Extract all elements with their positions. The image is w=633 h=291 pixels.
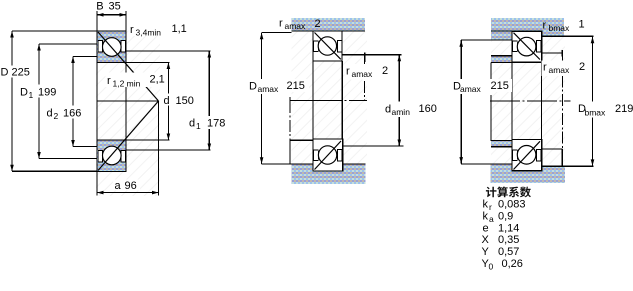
svg-text:amax: amax (460, 84, 482, 94)
view3 Damax dimension line (460, 40, 462, 163)
view2 shaft surface line right (da extension top) (342, 54, 401, 56)
view3 bottom bar (blue) (491, 164, 565, 183)
svg-text:d: d (47, 107, 53, 119)
dimension d line (167, 63, 169, 141)
view3 label r amax 2 (542, 61, 587, 77)
svg-text:d: d (189, 117, 195, 129)
view3 Da extension top / shoulder bottom line (461, 39, 512, 41)
view1 bottom section left raceway notch (98, 150, 103, 162)
view2 top section ball (318, 37, 336, 55)
svg-text:Y: Y (482, 246, 490, 258)
dimension D line (11, 31, 13, 171)
view3 label Dbmax 219 (576, 102, 633, 118)
view1 contact-angle diagonal through bottom ball to apex (98, 101, 159, 171)
svg-text:2: 2 (382, 65, 388, 77)
svg-text:D: D (1, 67, 9, 79)
view2 bottom section contact diagonal (315, 141, 342, 170)
dimension d2 extension top (73, 56, 97, 58)
svg-text:1,2 min: 1,2 min (113, 78, 141, 88)
view3 horizontal centerline (dash-dot) (490, 100, 571, 102)
svg-text:2: 2 (315, 18, 321, 30)
view2 shaft end vertical line (289, 97, 291, 101)
view3 shaft surface line right bottom (y149) (542, 148, 563, 150)
view2 housing shoulder bar top (blue) (292, 18, 366, 31)
svg-text:k: k (483, 199, 489, 211)
view2 shaft shoulder line over bottom bar / Da extension bottom (262, 163, 366, 165)
svg-text:amin: amin (392, 107, 411, 117)
view3 bottom spacer strip bottom line (491, 146, 512, 148)
view2 Damax dimension line (261, 33, 263, 164)
svg-text:160: 160 (419, 103, 437, 115)
view3 housing bore line under top bar (491, 30, 542, 32)
svg-text:D: D (249, 80, 257, 92)
view3 top section right notch (537, 41, 541, 53)
view3 bottom spacer strip (blue) (491, 141, 512, 146)
svg-text:166: 166 (63, 107, 81, 119)
view1 top section right raceway notch (121, 41, 125, 53)
dimension a line with arrows (97, 192, 159, 194)
dimension d2 extension bottom (73, 146, 97, 148)
view2 top section left notch (314, 41, 319, 52)
view3 top spacer strip bottom line (491, 61, 512, 63)
view2 bottom section left notch (314, 150, 319, 161)
view3 top section contact diagonal (514, 33, 540, 60)
view1 top section ball (103, 38, 122, 57)
view1 apex vertical extension line (a dimension) (158, 101, 160, 196)
svg-text:0,57: 0,57 (498, 246, 519, 258)
view2 top section contact diagonal (315, 33, 341, 60)
view3 bottom section contact diagonal (514, 141, 541, 169)
svg-text:1: 1 (579, 19, 585, 31)
view3 bottom bar right step cover (542, 164, 565, 166)
dimension d1 extension bottom (126, 149, 211, 151)
view3 top section left notch (513, 41, 518, 52)
svg-text:96: 96 (125, 180, 137, 192)
svg-text:D: D (20, 86, 28, 98)
view3 bottom section left notch (513, 150, 518, 161)
view3 Db extension top (542, 35, 594, 37)
dimension D1 line (38, 44, 40, 159)
view3 bottom bearing section box (512, 140, 542, 171)
svg-text:0,26: 0,26 (502, 258, 523, 270)
view2 shaft shoulder tick (364, 52, 366, 61)
label a 96 (113, 180, 140, 191)
svg-text:215: 215 (287, 80, 305, 92)
svg-text:B: B (96, 0, 103, 12)
dimension D1 extension top (39, 43, 97, 45)
label B 35 (95, 0, 124, 11)
view1 contact-angle diagonal through top ball to apex (98, 32, 159, 101)
svg-text:2: 2 (54, 111, 59, 121)
view3 housing shoulder block (blue) (491, 32, 512, 40)
svg-text:r: r (489, 202, 492, 212)
view2 hatched figure background (292, 32, 367, 164)
label r1,2min 2,1 (106, 73, 164, 88)
view3 Dbmax dimension line (592, 37, 594, 166)
svg-text:a: a (115, 180, 122, 192)
dimension D1 extension bottom (39, 158, 97, 160)
svg-text:3,4min: 3,4min (136, 27, 162, 37)
view3 label Damax 215 (452, 79, 485, 94)
view2 bottom section ball (318, 146, 336, 164)
svg-text:amax: amax (285, 21, 307, 31)
view1 bearing left face line (B extension left) (96, 11, 98, 196)
view2 damin dimension line (398, 55, 400, 146)
svg-text:amax: amax (352, 69, 374, 79)
view2 shaft bore line left (290, 139, 313, 141)
view3 hatched figure background (491, 32, 565, 167)
dimension d1 extension top (126, 50, 211, 52)
label D1 199 (19, 85, 56, 98)
view3 bore connecting line right (541, 62, 543, 139)
view2 label damin 160 (384, 102, 439, 118)
svg-text:bmax: bmax (549, 23, 571, 33)
label r3,4min 1,1 (129, 24, 187, 37)
view3 top bearing section box (512, 31, 542, 62)
view3 bottom section ball (517, 146, 536, 165)
view2 bore connecting line left (312, 61, 314, 139)
view2 top section right notch (338, 40, 342, 52)
dimension d2 line (72, 57, 74, 147)
svg-text:225: 225 (12, 67, 30, 79)
dimension d extension top (126, 62, 170, 64)
view3 bore connecting line left (511, 62, 513, 139)
label D 225 (0, 66, 31, 78)
svg-text:150: 150 (176, 95, 194, 107)
view2 da extension bottom (343, 145, 404, 147)
view3 top section ball (517, 37, 536, 56)
view3 shaft end vertical line (490, 63, 492, 79)
view1 hatched figure background (96, 30, 160, 196)
svg-text:1,14: 1,14 (498, 222, 519, 234)
view3 bottom section right notch (537, 150, 541, 162)
svg-text:amax: amax (258, 84, 280, 94)
svg-text:e: e (483, 222, 489, 234)
dimension D extension bottom (12, 170, 97, 172)
view2 bottom bearing section box (313, 139, 343, 171)
label d1 178 (188, 116, 227, 129)
view2 Da extension top (262, 31, 292, 33)
svg-text:k: k (483, 210, 489, 222)
svg-text:1: 1 (29, 90, 34, 100)
svg-text:d: d (385, 103, 391, 115)
dimension B line with arrows (97, 14, 126, 16)
dimension d1 line (208, 51, 210, 150)
svg-text:a: a (489, 214, 494, 224)
svg-text:2,1: 2,1 (150, 73, 165, 85)
view1 outer-ring top section (blue cross-section) (97, 31, 126, 63)
svg-text:215: 215 (491, 80, 509, 92)
svg-text:r: r (543, 20, 547, 32)
dimension d extension bottom (bore line) (126, 139, 170, 141)
label d2 166 (46, 106, 83, 119)
view3 bottom spacer strip top line (491, 140, 513, 142)
svg-text:r: r (543, 62, 547, 74)
svg-text:178: 178 (207, 117, 225, 129)
view1 bottom section ball (103, 146, 122, 165)
view1 bottom section right raceway notch (121, 150, 125, 162)
svg-text:0,083: 0,083 (498, 199, 526, 211)
view3 housing bar top (blue) (491, 18, 564, 31)
svg-text:35: 35 (109, 0, 121, 12)
view3 housing bar right step (blue, Db recess) (542, 31, 564, 36)
view2 shaft bar bottom (blue) (292, 165, 366, 184)
svg-text:1: 1 (196, 121, 201, 131)
view3 top spacer strip outline (491, 55, 512, 57)
view2 label Damax 215 (248, 79, 282, 94)
view3 shoulder vertical solid bottom (561, 149, 563, 166)
svg-text:0,9: 0,9 (498, 210, 513, 222)
view2 horizontal centerline (dash-dot) (290, 99, 367, 101)
svg-text:199: 199 (38, 86, 56, 98)
svg-text:X: X (482, 234, 490, 246)
view2 top bearing section box (313, 31, 342, 61)
view3 Da extension bottom / bottom bar top line (461, 163, 541, 165)
svg-text:amax: amax (549, 65, 571, 75)
view2 bore connecting line right (341, 61, 343, 139)
svg-text:0,35: 0,35 (498, 234, 519, 246)
view2 housing bore line under top bar (292, 30, 366, 32)
svg-text:2: 2 (579, 61, 585, 73)
view1 bottom section (blue cross-section) (97, 140, 126, 172)
svg-text:r: r (130, 24, 134, 36)
svg-text:1,1: 1,1 (172, 23, 187, 35)
dimension D extension top (12, 30, 97, 32)
view1 top section left raceway notch (98, 41, 103, 53)
view3 top spacer strip (blue) (491, 56, 512, 62)
table heading (calculation factors, Chinese) (486, 187, 531, 198)
view3 shaft surface line right top (y53) (542, 52, 563, 54)
svg-text:r: r (107, 75, 111, 87)
view1 horizontal centerline to apex (97, 100, 159, 102)
view3 Db extension bottom (542, 165, 594, 167)
view2 label r amax 2 middle (345, 64, 389, 80)
label d 150 (163, 94, 196, 106)
view2 shoulder vertical centerline (dash-dot) (364, 62, 366, 100)
svg-text:d: d (164, 95, 170, 107)
svg-text:219: 219 (615, 103, 633, 115)
view3 shaft shoulder tick top (561, 50, 563, 56)
view1 bearing right face line (B extension right) (125, 11, 127, 172)
svg-text:r: r (346, 66, 350, 78)
view3 shoulder vertical centerline (dash-dot) (561, 57, 563, 150)
svg-text:0: 0 (489, 262, 494, 272)
svg-text:bmax: bmax (585, 108, 607, 118)
svg-text:r: r (279, 17, 283, 29)
view2 bottom section right notch (338, 150, 342, 162)
